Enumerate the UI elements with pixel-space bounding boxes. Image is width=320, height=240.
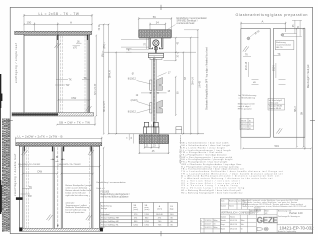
svg-text:Bearb.: Bearb. <box>221 220 227 222</box>
single leaf: floor threshold dark <box>12 113 58 115</box>
glass view: glass marks panel2 <box>276 128 282 134</box>
svg-text:o. TSG-Handle top: o. TSG-Handle top <box>238 96 256 99</box>
double leaf: dimension LL <box>15 137 103 143</box>
svg-text:(Pb) +: (Pb) + <box>102 50 104 57</box>
svg-text:ca. 52: ca. 52 <box>254 212 258 214</box>
svg-text:(mm): (mm) <box>145 209 150 211</box>
section: dim 6 <box>126 49 132 53</box>
svg-text:Zeichnungs-Nr / drawing no.: Zeichnungs-Nr / drawing no. <box>278 216 301 218</box>
single leaf: glass mark top left <box>55 43 61 49</box>
svg-text:Komfort SB-64: Komfort SB-64 <box>269 107 281 110</box>
svg-text:LL = 2xSB - TK - TW: LL = 2xSB - TK - TW <box>39 12 80 16</box>
single leaf: glass mark bottom right <box>86 106 92 112</box>
double leaf: floor end blocks <box>19 228 22 232</box>
single leaf: DW dimension <box>58 99 91 101</box>
svg-text:30 +2: 30 +2 <box>178 51 180 57</box>
section: OFF line <box>109 133 205 135</box>
svg-text:Perlan SoftStop HL: Perlan SoftStop HL <box>101 223 119 226</box>
svg-text:40: 40 <box>249 120 251 122</box>
svg-text:TW: TW <box>28 195 33 198</box>
single leaf: glass right edges <box>86 36 88 113</box>
svg-text:Oberkante Fertigfußboden OFF /: Oberkante Fertigfußboden OFF / top edge … <box>206 47 209 110</box>
svg-text:design: design <box>101 208 107 210</box>
svg-text:DH=LH: DH=LH <box>192 77 194 85</box>
single leaf: SH dim right <box>95 35 97 117</box>
glass view: TK labels <box>243 55 251 57</box>
svg-text:SB=DW/2+TK+TW-B/2: SB=DW/2+TK+TW-B/2 <box>18 164 41 166</box>
svg-text:Ersatz für / replaced by: Ersatz für / replaced by <box>278 230 296 233</box>
single leaf: SB dimension <box>56 117 96 126</box>
scan edge bar left <box>0 74 1 108</box>
single leaf: dimension 150 and A <box>23 23 93 36</box>
section: right step profile <box>176 127 182 134</box>
section: dim 18 <box>141 92 152 94</box>
double leaf: leaf2 glass edges <box>60 147 62 228</box>
glass view: dim A <box>240 22 286 32</box>
svg-text:b: b <box>201 224 202 226</box>
section: dim 45 <box>138 144 169 154</box>
svg-text:Muschelgriff / flush pull: Muschelgriff / flush pull <box>307 64 310 88</box>
section: leader to recommendation <box>165 25 176 32</box>
svg-text:HB-TG: HB-TG <box>276 47 283 49</box>
glass view: glass marks panel1 <box>243 46 249 52</box>
glass view: hole panel2 <box>281 34 283 36</box>
section: connector lines left of track <box>121 40 149 50</box>
svg-text:08.02.16: 08.02.16 <box>230 224 237 226</box>
glass view: right dim SH <box>303 28 305 148</box>
svg-text:B: B <box>56 155 58 159</box>
section: clamp profile top <box>149 53 164 57</box>
svg-text:SH=LH-77: SH=LH-77 <box>94 83 97 95</box>
double leaf: TK TW labels <box>21 188 33 194</box>
svg-text:TK: TK <box>69 79 73 82</box>
section: clamp plate lower left <box>150 103 152 113</box>
svg-text:(mm): (mm) <box>133 209 138 211</box>
svg-text:Datum: Datum <box>221 204 227 207</box>
single leaf: hanger bolt left <box>57 35 58 40</box>
svg-text:TK: TK <box>245 55 248 57</box>
svg-text:1/3: 1/3 <box>265 213 267 215</box>
double leaf: right wall <box>99 146 101 229</box>
single leaf: glass left edges <box>56 36 58 113</box>
svg-text:Perlan SoftStop HK: Perlan SoftStop HK <box>101 220 119 223</box>
svg-text:(2x10): (2x10) <box>131 99 138 102</box>
svg-text:DW: DW <box>72 96 77 100</box>
svg-text:Perlan SoftStop HH: Perlan SoftStop HH <box>101 217 119 220</box>
section: roller <box>153 40 159 46</box>
svg-text:56: 56 <box>153 15 157 19</box>
single leaf: ODH dim right2 <box>103 24 105 135</box>
title block: material notes <box>243 199 308 208</box>
double leaf: DW dims <box>22 173 94 175</box>
svg-text:SB = DW + TK + TW: SB = DW + TK + TW <box>59 120 90 124</box>
section: lintel hatched <box>139 30 172 38</box>
svg-text:05.02.16: 05.02.16 <box>230 220 237 222</box>
fs table: data rows <box>101 213 174 226</box>
section: dim 34 <box>149 23 166 30</box>
frame centre tick bottom <box>160 231 162 236</box>
single leaf: right wall line <box>89 35 91 113</box>
single leaf: hole centre dashed lines <box>59 36 61 113</box>
single leaf: left wall line <box>23 35 25 113</box>
double leaf: hanger bolts <box>24 146 25 151</box>
svg-text:a: a <box>201 220 202 222</box>
svg-text:ESG 12: ESG 12 <box>241 128 248 130</box>
svg-text:A: A <box>262 19 264 23</box>
svg-text:50: 50 <box>249 128 251 130</box>
svg-text:DH=LH: DH=LH <box>109 70 111 78</box>
svg-text:519: 519 <box>275 144 280 148</box>
section: dim outer right <box>197 29 199 135</box>
svg-text:8/10/12: 8/10/12 <box>128 110 137 113</box>
section: dim line left outer <box>108 24 110 135</box>
svg-text:03.11.17: 03.11.17 <box>205 224 212 226</box>
svg-text:LL = 2xDW + 2xTK + 2xTW - B: LL = 2xDW + 2xTK + 2xTW - B <box>18 135 63 139</box>
svg-text:Mhm: Mhm <box>241 220 245 222</box>
double leaf: notes text block para2 <box>66 201 91 214</box>
section: tick lines to right dims <box>99 24 199 60</box>
section: dim 30+2 right <box>175 52 177 61</box>
svg-text:80-140: 80-140 <box>156 214 163 216</box>
svg-text:8/10/12: 8/10/12 <box>128 78 137 81</box>
svg-text:09.02.16: 09.02.16 <box>230 228 237 230</box>
svg-text:ESG 8: ESG 8 <box>241 120 247 122</box>
title block: outer box <box>220 199 312 233</box>
svg-text:(mm): (mm) <box>157 209 162 211</box>
section: track profile <box>149 38 163 49</box>
section: clamp plate upper left <box>150 80 152 90</box>
svg-text:TK: TK <box>29 186 33 189</box>
svg-text:34: 34 <box>156 20 160 24</box>
fs table: header cells <box>101 204 174 211</box>
double leaf: glass marks top <box>22 150 95 156</box>
svg-text:Gepr.: Gepr. <box>221 224 226 226</box>
glass view: right dim SB+3 <box>296 28 298 148</box>
section: clamp wedge upper <box>157 77 163 90</box>
double leaf: right SH dim <box>103 147 105 229</box>
svg-text:zweiflügelig / double leaf: zweiflügelig / double leaf <box>13 154 17 196</box>
svg-text:Frick ± 5: Frick ± 5 <box>97 188 106 190</box>
fs table: grid <box>100 203 178 227</box>
svg-text:GEZE: GEZE <box>257 216 279 225</box>
title block: small cell text <box>254 206 261 213</box>
svg-text:DW: DW <box>38 170 43 174</box>
svg-text:±70: ±70 <box>73 48 78 50</box>
svg-text:Ø 20-18: Ø 20-18 <box>246 61 248 70</box>
single leaf: dimension LL <box>23 14 93 31</box>
section: track top line <box>139 37 171 39</box>
double leaf: centre line <box>57 147 59 226</box>
svg-text:c: c <box>201 227 202 229</box>
svg-text:SH=LH-77: SH=LH-77 <box>104 100 106 112</box>
svg-text:Perlan 140: Perlan 140 <box>289 211 303 215</box>
scan blob 1 <box>0 94 2 102</box>
single leaf: TK TW labels left <box>55 80 68 86</box>
double leaf: notes text block para1 <box>66 184 93 197</box>
glass view: hole leader and label <box>249 32 256 38</box>
svg-text:LH+43: LH+43 <box>199 80 201 88</box>
svg-text:150: 150 <box>27 20 32 24</box>
svg-text:Empfehlung / recommendation: Empfehlung / recommendation <box>177 17 208 20</box>
glass view: table panel1 <box>240 118 254 129</box>
scan blob 2 <box>0 185 2 212</box>
double leaf: leaf1 glass edges <box>22 147 24 228</box>
glass view: note lines panel1 <box>238 95 256 110</box>
svg-text:Mhm: Mhm <box>214 220 218 222</box>
section: hanger bolt <box>155 47 156 54</box>
svg-text:10.01.19: 10.01.19 <box>205 227 212 229</box>
section: glass thickness labels <box>128 71 171 113</box>
legend abbreviation list <box>181 142 283 195</box>
svg-text:Mhm: Mhm <box>214 227 218 229</box>
double leaf: track underside <box>19 146 99 148</box>
fs table: header text <box>101 191 130 198</box>
title block: revision table left <box>200 218 220 232</box>
svg-text:einflügelig / single leaf: einflügelig / single leaf <box>14 43 18 83</box>
svg-text:Name: Name <box>230 216 235 218</box>
svg-text:Empfehlung / recommendation: Empfehlung / recommendation <box>97 181 127 184</box>
svg-text:SB+3: SB+3 <box>295 106 297 112</box>
svg-text:Norm: Norm <box>221 228 226 230</box>
single leaf: hanger bolt right <box>87 35 88 40</box>
section: dim DH right <box>190 37 192 135</box>
frame centre tick right <box>310 119 315 121</box>
svg-text:Glasbearbeitung/glass preparat: Glasbearbeitung/glass preparation <box>236 13 308 17</box>
section: clamp wedge lower <box>157 100 163 113</box>
glass view: dim 519 <box>241 137 312 149</box>
glass view: note box panel2 <box>268 98 285 110</box>
title block: date name grid <box>220 215 256 233</box>
section: dim 43 right <box>175 37 177 53</box>
svg-text:HFB 1 panache: HFB 1 panache <box>238 108 253 110</box>
glass view: panel 1 <box>241 28 270 137</box>
svg-text:Änderung: Änderung <box>229 199 237 202</box>
svg-text:ESG 10: ESG 10 <box>241 124 248 126</box>
title block: scale cell <box>220 209 277 232</box>
svg-text:Standard: Standard <box>101 213 109 216</box>
svg-text:Ø: Ø <box>132 73 134 76</box>
section: glass pane <box>152 58 154 133</box>
double leaf: left wall <box>18 146 20 229</box>
svg-text:SH: SH <box>301 111 303 115</box>
svg-text:SB=DW/2+TK+TW-B/2: SB=DW/2+TK+TW-B/2 <box>59 164 82 166</box>
single leaf: floor hatched <box>12 113 94 116</box>
svg-text:(kg): (kg) <box>170 209 174 211</box>
svg-text:fixed wall protection: fixed wall protection <box>66 211 86 214</box>
single leaf: TK label right <box>82 79 90 81</box>
glass view: dims 45 60 top right <box>283 20 302 36</box>
double leaf: B min dim <box>51 159 66 160</box>
svg-text:TK: TK <box>277 54 280 56</box>
double leaf: top rail hatched <box>16 143 102 146</box>
svg-text:TW: TW <box>66 84 71 87</box>
glass view: panel 2 <box>274 28 305 137</box>
svg-text:TK: TK <box>84 77 88 80</box>
section: dim 69 right <box>175 76 177 116</box>
svg-text:(Pb) +: (Pb) + <box>104 42 106 49</box>
single leaf: top rail hatched <box>15 31 92 34</box>
section: dim line left inner <box>115 52 117 135</box>
section: dim 56 <box>138 17 172 29</box>
double leaf: floor hatched <box>19 228 102 231</box>
svg-text:Name: Name <box>229 205 234 207</box>
section: dim 21 23 <box>144 125 160 149</box>
glass view: hole panel1 <box>247 37 250 40</box>
svg-text:SH: SH <box>185 76 187 80</box>
section: recommendation note <box>177 17 208 25</box>
double leaf: SB dim lines <box>19 166 101 168</box>
section: dim SH right <box>183 52 185 135</box>
section: floor hatched <box>139 135 168 144</box>
svg-text:countersunk head: countersunk head <box>177 22 196 25</box>
svg-text:Zust.: Zust. <box>221 199 225 202</box>
svg-text:12.05.16: 12.05.16 <box>205 220 212 222</box>
double leaf: glass marks bottom <box>47 215 92 221</box>
svg-text:1:2: 1:2 <box>250 213 252 215</box>
svg-text:70 ±2: 70 ±2 <box>99 24 101 31</box>
left notes column rotated <box>3 119 9 233</box>
frame centre tick top <box>160 5 162 10</box>
svg-text:Maße in mm / dimensions in mm,: Maße in mm / dimensions in mm, Werkstück… <box>243 205 308 208</box>
single leaf: track underside <box>24 34 90 36</box>
svg-text:10421-EP-70-032: 10421-EP-70-032 <box>279 226 314 231</box>
recommendation note above fs table <box>97 181 127 190</box>
svg-text:H2 = Bohrung Stangengriff / bo: H2 = Bohrung Stangengriff / bore hole ha… <box>181 191 242 194</box>
svg-text:right side but either way: right side but either way <box>66 194 90 197</box>
frame centre tick left <box>8 119 13 121</box>
svg-text:45: 45 <box>249 124 251 126</box>
svg-text:end-to-end bottom guidance: end-to-end bottom guidance <box>101 195 130 198</box>
svg-text:Datum: Datum <box>221 215 227 218</box>
title block: top row cells <box>220 199 312 209</box>
section: floor guide shoe <box>144 122 159 133</box>
section: door top edge line <box>104 51 196 53</box>
double leaf: B marker block <box>16 197 23 200</box>
glass view: einfraesung box <box>275 41 294 50</box>
svg-text:Ø104: Ø104 <box>274 65 276 71</box>
svg-text:A: A <box>70 20 72 24</box>
title block: projection symbol <box>257 227 269 231</box>
